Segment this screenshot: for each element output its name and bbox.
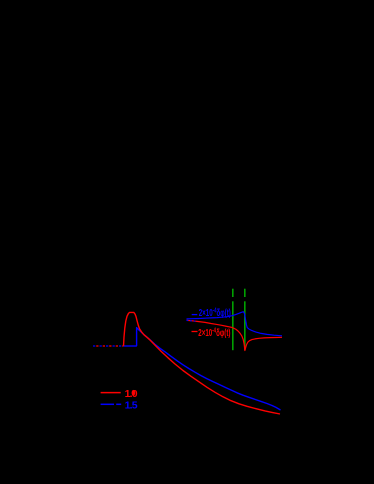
- legend: blue sample dashed line: [101, 403, 114, 405]
- main red curve (model 1.0): burst peak and decay: [124, 312, 281, 414]
- wire: pre-transition flat level blue dashes: [93, 345, 123, 347]
- wire: pre-transition flat level red dashes: [93, 345, 123, 347]
- inset: green vertical line 1: [232, 289, 234, 351]
- main blue curve (model 1.5): vertical jump and decay: [137, 328, 281, 410]
- legend: red label 0 counter fill: [132, 390, 136, 396]
- inset red curve: slow decay, sharp negative spike, recovery: [187, 320, 283, 350]
- inset: green vertical line 2: [244, 289, 246, 351]
- wire: inset red curve dashed start overlay (blue dashes): [187, 319, 197, 322]
- svg-text:1.5: 1.5: [125, 400, 138, 412]
- wire: pre-transition flat level solid blue segment: [123, 345, 136, 347]
- inset: black gaps over green lines: [232, 297, 235, 301]
- inset legend: red dash: [192, 331, 198, 333]
- inset blue curve: rise, sharp drop at line 2, decay to flat: [187, 312, 283, 336]
- inset legend: blue dash: [192, 314, 198, 316]
- legend: red sample line: [101, 392, 121, 394]
- svg-text:1.0: 1.0: [125, 388, 138, 400]
